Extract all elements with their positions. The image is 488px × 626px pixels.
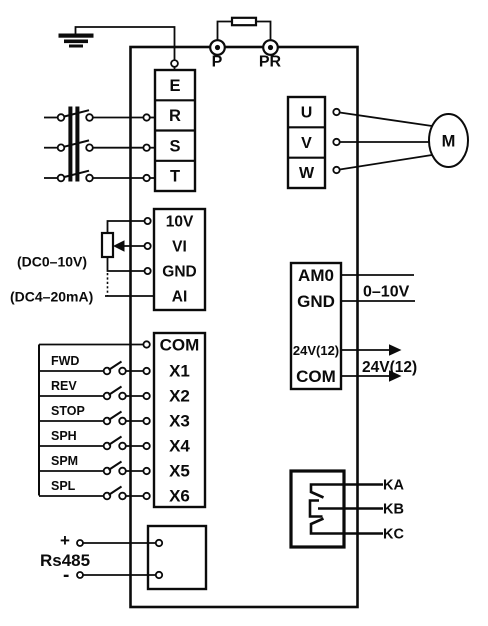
- node U: [333, 109, 339, 115]
- node X1: [143, 368, 149, 374]
- terminal block E R S T: [155, 70, 195, 191]
- wire COM out with arrow: [341, 375, 390, 377]
- node E-top: [171, 60, 178, 67]
- node R: [143, 114, 149, 120]
- ground: [59, 34, 94, 48]
- node - left: [77, 572, 83, 578]
- svg-text:(DC0–10V): (DC0–10V): [17, 254, 87, 270]
- node COM: [143, 341, 149, 347]
- digital terminal box COM X1-X6: [154, 333, 205, 507]
- svg-text:KC: KC: [383, 527, 404, 543]
- terminal PR: [259, 40, 282, 70]
- switch SPL / X6: [39, 479, 143, 499]
- terminal block U V W: [288, 97, 325, 188]
- svg-text:REV: REV: [51, 379, 77, 393]
- wire dashed to AI: [107, 273, 109, 296]
- svg-text:X1: X1: [169, 362, 190, 381]
- switch STOP / X3: [39, 404, 143, 424]
- relay contact KC: [311, 519, 383, 534]
- node + left: [77, 540, 83, 546]
- svg-text:FWD: FWD: [51, 354, 79, 368]
- node X4: [143, 443, 149, 449]
- wire W to motor: [340, 155, 432, 170]
- svg-text:V: V: [301, 135, 312, 152]
- node GND: [145, 268, 151, 274]
- svg-text:X6: X6: [169, 487, 190, 506]
- wire GND out: [341, 300, 415, 302]
- node T: [143, 175, 149, 181]
- potentiometer: [102, 233, 125, 257]
- svg-text:GND: GND: [297, 292, 335, 311]
- node V: [333, 139, 339, 145]
- switch SPM / X5: [39, 454, 143, 474]
- node VI: [145, 243, 151, 249]
- wire ground to E: [76, 27, 175, 60]
- svg-text:SPH: SPH: [51, 429, 77, 443]
- wire wiper to VI: [125, 245, 145, 247]
- svg-text:COM: COM: [160, 335, 200, 354]
- svg-text:W: W: [299, 165, 315, 182]
- switch SPH / X4: [39, 429, 143, 449]
- terminal P: [210, 40, 225, 70]
- wire AM0 out: [341, 274, 414, 276]
- svg-text:P: P: [212, 54, 223, 71]
- node X6: [143, 493, 149, 499]
- svg-text:KB: KB: [383, 502, 404, 518]
- switch FWD / X1: [39, 354, 143, 374]
- svg-text:R: R: [169, 107, 181, 125]
- svg-text:S: S: [169, 137, 180, 155]
- analog terminal box 10V VI GND AI: [154, 209, 205, 310]
- svg-text:10V: 10V: [166, 214, 194, 231]
- wire COM: [39, 344, 143, 346]
- svg-text:M: M: [442, 133, 456, 151]
- wire pot top to 10V: [108, 221, 145, 233]
- svg-text:U: U: [301, 105, 313, 122]
- relay contact KA: [311, 485, 383, 498]
- resistor (braking): [218, 18, 271, 40]
- svg-text:VI: VI: [172, 239, 187, 256]
- svg-text:KA: KA: [383, 478, 404, 494]
- node X3: [143, 418, 149, 424]
- node X2: [143, 393, 149, 399]
- svg-text:SPL: SPL: [51, 479, 76, 493]
- left bus: [38, 345, 40, 496]
- wire 24V out with arrow: [341, 349, 390, 351]
- svg-text:+: +: [60, 531, 70, 550]
- svg-text:(DC4–20mA): (DC4–20mA): [10, 289, 93, 305]
- main box (inverter outline): [131, 47, 358, 607]
- svg-text:X5: X5: [169, 462, 190, 481]
- motor M: [429, 114, 468, 167]
- breaker pole T: [44, 171, 143, 182]
- node S: [143, 145, 149, 151]
- svg-text:SPM: SPM: [51, 454, 78, 468]
- relay box: [291, 471, 344, 547]
- svg-text:AI: AI: [172, 289, 188, 306]
- relay contact common KB: [310, 501, 323, 517]
- wire V to motor: [340, 141, 430, 143]
- svg-text:COM: COM: [296, 367, 336, 386]
- svg-text:T: T: [170, 168, 180, 186]
- wire U to motor: [340, 113, 432, 127]
- svg-text:E: E: [169, 77, 180, 95]
- wire pot bottom to GND: [108, 257, 145, 271]
- node RS485 +: [156, 540, 162, 546]
- breaker pole R: [44, 110, 143, 121]
- svg-text:X3: X3: [169, 412, 190, 431]
- node X5: [143, 468, 149, 474]
- wire RS485 +: [83, 542, 156, 544]
- node W: [333, 167, 339, 173]
- svg-text:24V(12): 24V(12): [293, 343, 339, 358]
- svg-text:0–10V: 0–10V: [363, 284, 410, 301]
- svg-text:X4: X4: [169, 437, 190, 456]
- svg-text:X2: X2: [169, 387, 190, 406]
- RS485 box: [148, 526, 206, 589]
- svg-text:PR: PR: [259, 54, 282, 71]
- breaker bars: [68, 107, 79, 182]
- wire RS485 -: [83, 574, 156, 576]
- wire AI: [105, 295, 154, 297]
- node RS485 -: [156, 572, 162, 578]
- switch REV / X2: [39, 379, 143, 399]
- svg-text:GND: GND: [162, 264, 196, 281]
- svg-text:STOP: STOP: [51, 404, 85, 418]
- analog output box AM0 GND 24V COM: [291, 263, 341, 389]
- svg-text:AM0: AM0: [298, 266, 334, 285]
- node 10V: [145, 218, 151, 224]
- svg-text:-: -: [63, 565, 69, 586]
- breaker pole S: [44, 140, 143, 151]
